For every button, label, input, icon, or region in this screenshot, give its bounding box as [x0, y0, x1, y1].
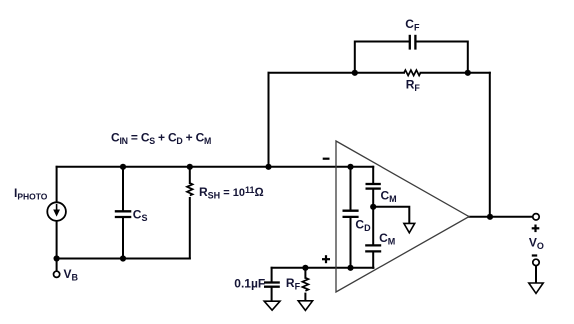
svg-text:IPHOTO: IPHOTO	[14, 186, 48, 201]
svg-text:CS: CS	[133, 208, 148, 224]
svg-text:RSH = 1011Ω: RSH = 1011Ω	[199, 185, 264, 201]
svg-text:0.1µF: 0.1µF	[234, 276, 265, 290]
svg-text:RF: RF	[406, 78, 421, 94]
svg-text:VO: VO	[529, 235, 544, 251]
svg-text:RF: RF	[286, 276, 301, 292]
svg-text:CM: CM	[381, 189, 397, 205]
svg-text:CIN = CS + CD + CM: CIN = CS + CD + CM	[111, 130, 211, 146]
svg-text:CD: CD	[355, 217, 371, 233]
svg-text:CF: CF	[405, 17, 420, 33]
svg-text:VB: VB	[64, 267, 79, 283]
svg-text:CM: CM	[379, 231, 395, 247]
